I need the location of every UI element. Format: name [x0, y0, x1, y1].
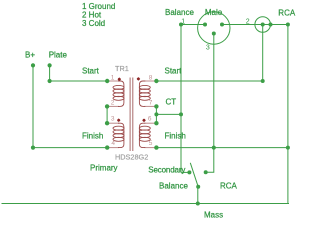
svg-text:Finish: Finish [82, 131, 103, 140]
svg-text:1: 1 [111, 74, 115, 81]
svg-text:Secondary: Secondary [148, 166, 185, 175]
svg-text:B+: B+ [25, 51, 35, 60]
svg-text:Plate: Plate [49, 51, 68, 60]
svg-text:Start: Start [165, 66, 183, 75]
svg-text:Mass: Mass [204, 211, 223, 220]
svg-text:8: 8 [149, 74, 153, 81]
svg-text:5: 5 [149, 140, 153, 147]
svg-text:7: 7 [149, 100, 153, 107]
svg-text:Start: Start [82, 66, 100, 75]
svg-text:CT: CT [166, 97, 177, 106]
svg-text:RCA: RCA [278, 8, 296, 17]
svg-text:HDS28G2: HDS28G2 [115, 152, 148, 161]
svg-text:6: 6 [148, 116, 152, 123]
svg-text:4: 4 [111, 140, 115, 147]
svg-text:Male: Male [205, 8, 223, 17]
svg-text:RCA: RCA [220, 182, 238, 191]
svg-text:2: 2 [246, 18, 250, 25]
svg-text:3: 3 [111, 116, 115, 123]
svg-text:Finish: Finish [165, 131, 186, 140]
svg-text:Balance: Balance [159, 182, 188, 191]
svg-text:3: 3 [206, 44, 210, 51]
svg-text:1: 1 [181, 18, 185, 25]
svg-text:Balance: Balance [165, 8, 194, 17]
svg-text:3 Cold: 3 Cold [82, 19, 105, 28]
svg-text:2: 2 [111, 100, 115, 107]
svg-text:Primary: Primary [90, 164, 118, 173]
svg-text:TR1: TR1 [115, 64, 129, 73]
